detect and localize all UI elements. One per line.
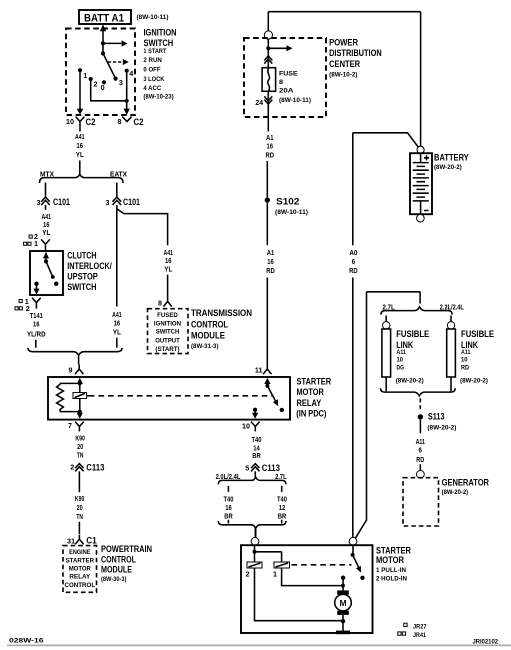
svg-text:10: 10 — [66, 117, 74, 126]
svg-text:CENTER: CENTER — [329, 59, 360, 69]
svg-text:MOTOR: MOTOR — [69, 565, 92, 572]
svg-text:2: 2 — [70, 462, 74, 471]
svg-text:A41: A41 — [164, 250, 174, 257]
svg-text:JRI02102: JRI02102 — [473, 638, 499, 645]
svg-text:MOTOR: MOTOR — [297, 387, 325, 397]
svg-text:STARTER: STARTER — [66, 557, 95, 564]
svg-text:CONTROL: CONTROL — [191, 319, 228, 329]
svg-text:BATT A1: BATT A1 — [84, 12, 124, 24]
svg-text:3: 3 — [119, 78, 123, 87]
svg-text:SWITCH: SWITCH — [156, 328, 180, 335]
svg-text:K90: K90 — [75, 435, 85, 442]
svg-text:3: 3 — [37, 198, 41, 207]
svg-text:14: 14 — [253, 445, 260, 452]
svg-text:FUSED: FUSED — [157, 312, 178, 319]
svg-text:T40: T40 — [277, 496, 287, 503]
svg-text:A41: A41 — [112, 312, 122, 319]
svg-text:RELAY: RELAY — [69, 574, 91, 581]
svg-text:CLUTCH: CLUTCH — [67, 251, 97, 261]
svg-text:2.7L: 2.7L — [382, 304, 394, 311]
svg-text:BR: BR — [224, 514, 233, 521]
svg-text:1: 1 — [34, 239, 38, 248]
svg-text:T141: T141 — [30, 313, 43, 320]
svg-text:(8W-10-11): (8W-10-11) — [279, 97, 311, 104]
svg-text:RD: RD — [416, 457, 424, 464]
svg-text:T40: T40 — [252, 437, 262, 444]
svg-text:028W-16: 028W-16 — [9, 637, 44, 644]
svg-text:A41: A41 — [75, 134, 85, 141]
svg-text:C101: C101 — [53, 197, 70, 207]
svg-text:1: 1 — [83, 71, 87, 80]
svg-text:STARTER: STARTER — [376, 545, 411, 555]
svg-text:3 LOCK: 3 LOCK — [143, 76, 164, 83]
svg-text:2.2L/2.4L: 2.2L/2.4L — [440, 304, 464, 311]
svg-text:YL: YL — [164, 266, 172, 273]
svg-text:16: 16 — [165, 258, 172, 265]
svg-text:CONTROL: CONTROL — [65, 582, 96, 589]
svg-text:RD: RD — [266, 268, 275, 275]
svg-text:JR41: JR41 — [413, 632, 426, 639]
svg-text:(8W-10-11): (8W-10-11) — [275, 209, 308, 216]
svg-text:MOTOR: MOTOR — [376, 555, 404, 565]
svg-text:C1: C1 — [86, 535, 97, 545]
svg-text:2 RUN: 2 RUN — [143, 57, 162, 64]
svg-text:20: 20 — [77, 444, 83, 451]
svg-text:BATTERY: BATTERY — [434, 153, 469, 163]
svg-text:1 START: 1 START — [143, 48, 167, 55]
svg-text:16: 16 — [267, 143, 274, 150]
svg-text:C113: C113 — [262, 463, 280, 473]
svg-text:12: 12 — [279, 505, 286, 512]
svg-text:JR27: JR27 — [413, 623, 427, 630]
svg-text:A0: A0 — [349, 250, 357, 257]
svg-text:INTERLOCK/: INTERLOCK/ — [67, 261, 112, 271]
svg-text:(8W-10-23): (8W-10-23) — [143, 94, 173, 101]
svg-text:FUSIBLE: FUSIBLE — [461, 329, 494, 339]
svg-text:24: 24 — [255, 98, 263, 107]
svg-text:TRANSMISSION: TRANSMISSION — [191, 308, 252, 318]
svg-text:2.7L: 2.7L — [275, 474, 287, 481]
svg-text:16: 16 — [114, 321, 121, 328]
svg-text:0 OFF: 0 OFF — [143, 66, 160, 73]
svg-text:IGNITION: IGNITION — [154, 320, 182, 327]
svg-text:A11: A11 — [397, 349, 407, 356]
svg-text:(8W-10-2): (8W-10-2) — [329, 71, 357, 78]
svg-text:(IN PDC): (IN PDC) — [296, 409, 326, 419]
svg-text:GENERATOR: GENERATOR — [442, 477, 490, 487]
svg-text:A1: A1 — [267, 250, 275, 257]
svg-text:ENGINE: ENGINE — [69, 549, 90, 556]
svg-text:T40: T40 — [224, 496, 234, 503]
svg-text:BR: BR — [278, 514, 287, 521]
svg-text:UPSTOP: UPSTOP — [67, 271, 98, 281]
svg-text:FUSIBLE: FUSIBLE — [396, 329, 429, 339]
svg-text:(8W-20-2): (8W-20-2) — [442, 489, 469, 496]
svg-text:EATX: EATX — [110, 172, 127, 179]
svg-text:6: 6 — [352, 259, 356, 266]
svg-text:MODULE: MODULE — [101, 564, 132, 574]
svg-text:16: 16 — [33, 321, 40, 328]
svg-text:A1: A1 — [266, 135, 274, 142]
svg-text:SWITCH: SWITCH — [67, 282, 97, 292]
svg-text:C113: C113 — [86, 462, 104, 472]
svg-text:YL: YL — [42, 230, 50, 237]
svg-text:(8W-20-2): (8W-20-2) — [460, 377, 488, 384]
svg-text:2: 2 — [26, 304, 30, 313]
svg-text:1: 1 — [273, 569, 277, 578]
svg-text:A11: A11 — [461, 349, 471, 356]
svg-text:4: 4 — [129, 69, 133, 78]
svg-text:20A: 20A — [279, 88, 294, 95]
svg-text:C2: C2 — [134, 117, 144, 127]
svg-text:FUSE: FUSE — [279, 71, 298, 78]
svg-text:5: 5 — [245, 464, 249, 473]
svg-text:C2: C2 — [86, 117, 96, 127]
svg-text:9: 9 — [69, 365, 73, 374]
svg-text:IGNITION: IGNITION — [144, 27, 177, 37]
svg-text:C101: C101 — [123, 197, 140, 207]
svg-text:2: 2 — [246, 569, 250, 578]
svg-text:RELAY: RELAY — [297, 398, 322, 408]
svg-text:STARTER: STARTER — [297, 377, 332, 387]
svg-text:OUTPUT: OUTPUT — [155, 337, 180, 344]
svg-text:3: 3 — [106, 198, 110, 207]
svg-text:10: 10 — [242, 422, 250, 431]
svg-text:SWITCH: SWITCH — [144, 38, 174, 48]
svg-text:MODULE: MODULE — [191, 331, 225, 341]
svg-text:BR: BR — [252, 453, 261, 460]
svg-text:DG: DG — [397, 365, 405, 372]
svg-text:S102: S102 — [276, 197, 300, 207]
svg-text:2 HOLD-IN: 2 HOLD-IN — [376, 575, 407, 582]
svg-text:16: 16 — [77, 143, 84, 150]
svg-text:16: 16 — [267, 259, 274, 266]
svg-text:8: 8 — [158, 299, 162, 308]
svg-text:POWERTRAIN: POWERTRAIN — [101, 544, 152, 554]
svg-text:YL: YL — [76, 152, 84, 159]
svg-text:YL: YL — [113, 329, 121, 336]
svg-text:(8W-20-2): (8W-20-2) — [427, 424, 456, 431]
svg-text:4 ACC: 4 ACC — [143, 85, 161, 92]
svg-text:RD: RD — [266, 153, 275, 160]
svg-text:16: 16 — [225, 505, 232, 512]
svg-text:(8W-31-3): (8W-31-3) — [191, 343, 219, 350]
svg-text:A11: A11 — [416, 439, 426, 446]
svg-text:8: 8 — [118, 117, 122, 126]
svg-text:16: 16 — [43, 222, 50, 229]
svg-text:POWER: POWER — [329, 37, 358, 47]
svg-text:1 PULL-IN: 1 PULL-IN — [376, 567, 406, 574]
svg-text:RD: RD — [461, 365, 469, 372]
svg-text:2.0L/2.4L: 2.0L/2.4L — [216, 474, 241, 481]
svg-text:(8W-20-2): (8W-20-2) — [396, 377, 424, 384]
svg-text:8: 8 — [279, 79, 283, 86]
svg-text:M: M — [339, 598, 346, 608]
svg-text:10: 10 — [461, 356, 468, 363]
svg-text:10: 10 — [397, 356, 404, 363]
svg-text:0: 0 — [101, 83, 105, 92]
svg-text:2: 2 — [94, 80, 98, 89]
svg-text:11: 11 — [255, 365, 263, 374]
svg-text:K90: K90 — [75, 496, 85, 503]
svg-text:TN: TN — [76, 514, 83, 521]
svg-text:(START): (START) — [155, 346, 179, 353]
svg-text:S113: S113 — [428, 412, 445, 422]
svg-text:6: 6 — [419, 447, 423, 454]
svg-text:(8W-10-11): (8W-10-11) — [137, 14, 169, 21]
svg-text:20: 20 — [77, 505, 83, 512]
svg-text:DISTRIBUTION: DISTRIBUTION — [329, 48, 382, 58]
svg-text:7: 7 — [68, 421, 72, 430]
svg-text:TN: TN — [77, 453, 84, 460]
svg-text:YL/RD: YL/RD — [27, 331, 46, 338]
svg-text:(8W-20-2): (8W-20-2) — [434, 164, 462, 171]
svg-text:CONTROL: CONTROL — [101, 554, 136, 564]
svg-text:31: 31 — [67, 536, 75, 545]
svg-text:RD: RD — [349, 268, 358, 275]
svg-text:(8W-30-3): (8W-30-3) — [101, 576, 127, 583]
svg-text:MTX: MTX — [40, 172, 54, 179]
svg-text:A41: A41 — [42, 214, 52, 221]
